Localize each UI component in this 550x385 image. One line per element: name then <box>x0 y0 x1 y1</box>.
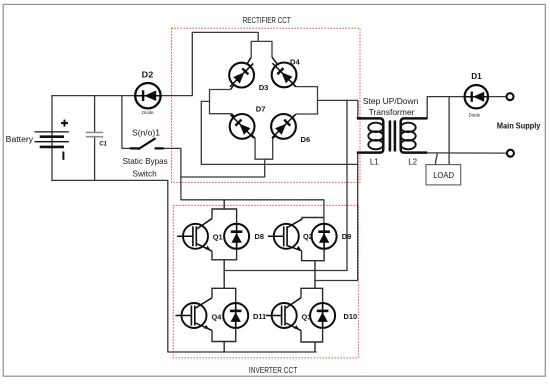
diode D10 <box>310 303 335 328</box>
svg-text:Transformer: Transformer <box>369 107 415 117</box>
transformer core bars <box>389 120 392 151</box>
svg-text:C1: C1 <box>99 142 107 148</box>
inverter CCT dashed box <box>173 205 358 358</box>
diode D7 <box>222 106 263 147</box>
svg-text:D6: D6 <box>301 135 311 144</box>
terminal top (main supply) <box>507 93 514 100</box>
wire: main top rail battery to D2 to bridge top <box>52 32 258 95</box>
diode D3 <box>221 55 262 96</box>
wire: switch right to inverter top <box>163 148 324 224</box>
svg-text:Q4: Q4 <box>212 313 223 322</box>
svg-text:S(n/o)1: S(n/o)1 <box>132 128 160 138</box>
svg-text:L2: L2 <box>408 157 417 166</box>
wire: L1 bottom vertical down to inverter right-leg node <box>315 153 358 281</box>
pair BR rails <box>301 288 323 352</box>
diode D4 <box>264 54 305 95</box>
svg-text:INVERTER CCT: INVERTER CCT <box>249 366 298 375</box>
bridge bottom stub <box>255 138 273 159</box>
svg-text:D7: D7 <box>256 105 266 114</box>
terminal bottom (main supply) <box>507 150 514 157</box>
svg-text:Main Supply: Main Supply <box>497 121 541 130</box>
svg-text:D3: D3 <box>259 83 269 92</box>
wire: bridge right bus to L1 top <box>318 100 358 118</box>
svg-text:D9: D9 <box>342 232 351 241</box>
wire: L2 top to D1 and terminal <box>427 97 506 119</box>
svg-text:L1: L1 <box>370 157 379 166</box>
svg-text:Step UP/Down: Step UP/Down <box>363 96 419 106</box>
transformer L1 winding with leads <box>357 118 384 152</box>
battery minus mark <box>62 152 64 160</box>
svg-text:Q1: Q1 <box>213 232 223 241</box>
IGBT Q3 <box>266 298 301 331</box>
IGBT Q2 <box>268 219 302 251</box>
rectifier CCT dashed box <box>172 28 361 182</box>
svg-text:D4: D4 <box>290 58 300 67</box>
pair TL rails <box>212 200 237 288</box>
switch contacts <box>131 139 164 149</box>
svg-text:Switch: Switch <box>133 169 158 178</box>
wire: bottom supply to terminal <box>427 152 506 154</box>
diode D9 <box>312 224 337 249</box>
pair TR rails <box>302 218 325 289</box>
transformer L2 winding with leads <box>401 118 428 152</box>
svg-text:RECTIFIER CCT: RECTIFIER CCT <box>243 16 291 25</box>
wire: switch branch down <box>122 96 130 149</box>
battery plates <box>35 132 69 147</box>
wire: bridge left bus tap down and under to L1 bottom vertical <box>201 101 357 164</box>
IGBT Q1 <box>177 219 212 252</box>
svg-text:Battery: Battery <box>6 135 33 144</box>
wire: inverter left-leg node up to top bus <box>224 100 347 270</box>
svg-text:D1: D1 <box>471 71 482 81</box>
diode D6 <box>263 106 304 147</box>
diode D11 <box>223 303 248 328</box>
svg-text:Diode: Diode <box>142 110 154 115</box>
wire: C1 bottom lead <box>94 137 96 181</box>
svg-text:D2: D2 <box>142 70 154 80</box>
svg-text:Diode: Diode <box>469 113 481 118</box>
bridge top stub <box>251 41 272 57</box>
svg-text:D10: D10 <box>344 312 358 321</box>
diode D8 <box>224 224 249 249</box>
wire: bridge bottom to switch vertical <box>181 159 265 177</box>
wire: LOAD vertical from top supply <box>448 97 450 165</box>
svg-text:D11: D11 <box>253 312 266 321</box>
wire: battery left vertical <box>51 96 53 181</box>
pair BL rails <box>212 288 236 352</box>
battery plus mark <box>61 120 68 127</box>
svg-text:D8: D8 <box>255 232 264 241</box>
switch blade <box>139 139 155 149</box>
svg-text:LOAD: LOAD <box>433 170 454 180</box>
bridge left arm <box>210 90 232 114</box>
wire: C1 top lead <box>94 96 96 133</box>
wire: battery bottom to inverter bottom rail <box>52 180 316 352</box>
svg-text:Static Bypas: Static Bypas <box>123 157 168 166</box>
bridge right arm <box>296 87 318 114</box>
IGBT Q4 <box>176 298 213 331</box>
wire: LOAD slant from bottom supply <box>435 153 437 165</box>
